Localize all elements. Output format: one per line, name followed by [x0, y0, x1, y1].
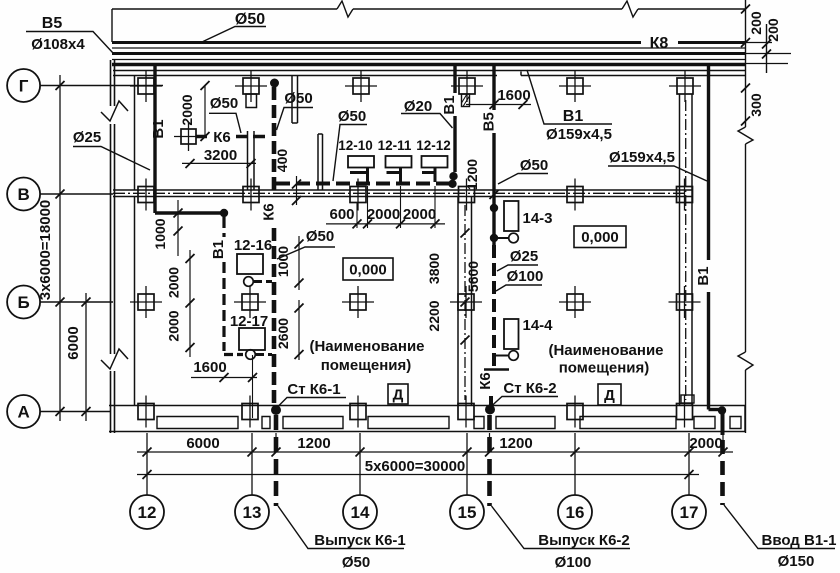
- svg-text:Ø50: Ø50: [306, 228, 334, 245]
- fixture 12-17 rectangle: [239, 328, 265, 350]
- tick 1200a: [490, 190, 499, 199]
- tick x60 y194: [56, 190, 65, 199]
- svg-text:К6: К6: [213, 129, 231, 146]
- fixture 12-10 outlet: [350, 168, 368, 183]
- tick at y9: [741, 5, 750, 14]
- ticks 600/2000/2000: [353, 219, 440, 228]
- svg-text:(Наименование: (Наименование: [309, 338, 424, 355]
- thin line under K8: [112, 47, 746, 49]
- leader Ввод В1-1: [724, 505, 835, 549]
- svg-text:14: 14: [351, 503, 370, 522]
- svg-text:2000: 2000: [689, 435, 722, 452]
- svg-text:К6: К6: [477, 372, 494, 390]
- K6-1 outlet dashed below wall: [274, 415, 279, 506]
- fixture 12-11 outlet: [387, 168, 401, 183]
- extension line y63 right: [746, 63, 788, 65]
- svg-text:В5: В5: [42, 15, 63, 32]
- tick dim1 x489.5: [485, 448, 494, 457]
- svg-text:12: 12: [138, 503, 157, 522]
- svg-text:12-12: 12-12: [416, 138, 451, 153]
- svg-text:2200: 2200: [426, 300, 442, 331]
- right dimension/wall extension line: [745, 0, 747, 433]
- extension line left end of boundary: [111, 9, 113, 42]
- svg-text:16: 16: [566, 503, 585, 522]
- pipe B5 (thick): [112, 52, 746, 55]
- dashed stub 12-17 to K6 stack: [256, 353, 272, 356]
- column В/15: [459, 179, 475, 211]
- tick dim1 x689: [685, 448, 694, 457]
- svg-text:Ø100: Ø100: [507, 268, 544, 285]
- ext line K6-2 stack to dim: [489, 433, 491, 452]
- svg-text:Ø25: Ø25: [510, 248, 538, 265]
- tick dim1 x252: [248, 448, 257, 457]
- svg-text:Ø159x4,5: Ø159x4,5: [609, 149, 675, 166]
- left wall outer line: [110, 60, 112, 433]
- leader St K6-1: [278, 398, 347, 408]
- svg-text:Ø50: Ø50: [235, 11, 265, 28]
- tick x60 y411.5: [56, 407, 65, 416]
- tap circle 12-16: [244, 277, 254, 287]
- tick at K8: [741, 38, 750, 47]
- break symbol left wall lower: [101, 349, 128, 369]
- dim line x190: [189, 250, 191, 357]
- leader for B5: [26, 32, 113, 54]
- axis 15 wall centerline dash-dot: [464, 205, 466, 400]
- tick x60 y85.5: [56, 81, 65, 90]
- svg-text:Д: Д: [393, 387, 404, 404]
- leader O25 center: [497, 265, 538, 271]
- ticks x299 upper: [295, 240, 304, 288]
- svg-text:К8: К8: [650, 35, 669, 52]
- riser B1 center (thick): [453, 64, 456, 173]
- column В/14: [350, 179, 366, 211]
- interior wall on axis 15: [458, 197, 472, 406]
- leader Выпуск К6-1: [278, 506, 404, 549]
- svg-text:14-4: 14-4: [522, 317, 553, 334]
- extension line axis 17: [688, 433, 690, 495]
- axis circle 16: [558, 495, 592, 529]
- column Б/17: [669, 286, 701, 318]
- tap stub 14-3: [494, 237, 509, 239]
- axis line Б: [40, 301, 113, 303]
- svg-text:Б: Б: [17, 293, 29, 312]
- dim line 3200: [182, 162, 256, 164]
- dim line x299 upper: [298, 236, 300, 290]
- leader St K6-2: [492, 397, 559, 407]
- svg-text:1200: 1200: [499, 435, 532, 452]
- junction dot K6 main end: [448, 180, 456, 188]
- break symbol right line lower: [738, 352, 753, 370]
- svg-text:Ø50: Ø50: [284, 90, 312, 107]
- tick dim1 x360: [356, 448, 365, 457]
- column Б/14: [342, 286, 374, 318]
- tick x60 y302: [56, 298, 65, 307]
- ticks x299 lower: [295, 304, 304, 360]
- dim line 1600: [191, 377, 257, 379]
- fixture 12-16 rectangle: [237, 254, 263, 274]
- pipe K8 (thick, top): [112, 41, 746, 44]
- svg-text:15: 15: [458, 503, 477, 522]
- K6 stack-1 top junction dot: [270, 79, 279, 88]
- fixture 12-12 outlet: [422, 168, 435, 183]
- svg-text:Г: Г: [19, 77, 29, 96]
- svg-text:2600: 2600: [275, 318, 291, 349]
- tick 1000b: [174, 227, 183, 236]
- svg-text:12-16: 12-16: [234, 237, 272, 254]
- column В/17: [677, 179, 693, 211]
- svg-text:1200: 1200: [297, 435, 330, 452]
- leader O50 B5: [498, 174, 548, 185]
- svg-text:А: А: [17, 403, 29, 422]
- left dim line 1 (18000): [59, 75, 61, 421]
- svg-text:Ø50: Ø50: [338, 108, 366, 125]
- svg-text:помещения): помещения): [559, 360, 650, 377]
- tick 766 at 54: [762, 50, 771, 59]
- site boundary line top: [112, 8, 746, 10]
- column А/12: [138, 396, 154, 428]
- A bottom wall bottom face: [109, 431, 745, 433]
- column А/17: [677, 396, 693, 428]
- axis circle 13: [235, 495, 269, 529]
- top wall inner face segments with door gap: [113, 72, 745, 76]
- right wall end cap bottom: [744, 406, 746, 432]
- column Б/16: [559, 286, 591, 318]
- B1 distribution pipe dash-dot on B wall: [113, 192, 688, 194]
- junction dot B1 elbow: [220, 209, 228, 217]
- riser B1 right (thick): [707, 64, 710, 410]
- left dim line 2 (6000): [85, 293, 87, 421]
- leader O50 stack-1: [277, 247, 335, 259]
- partition on axis 13 from column to B wall: [246, 94, 257, 108]
- svg-text:помещения): помещения): [321, 357, 412, 374]
- svg-text:Ø108x4: Ø108x4: [31, 36, 85, 53]
- svg-text:0,000: 0,000: [349, 262, 387, 279]
- svg-text:3800: 3800: [426, 253, 442, 284]
- leader O159x4,5 second: [608, 166, 707, 181]
- K6-2 outlet dashed below wall: [487, 415, 492, 506]
- svg-text:6000: 6000: [65, 326, 82, 359]
- svg-text:6000: 6000: [186, 435, 219, 452]
- leader for O50 top: [203, 27, 266, 42]
- axis line В: [40, 193, 113, 195]
- K6 stack-2 dashed: [491, 245, 494, 405]
- B1 dashed stub to 12-17 tap: [224, 353, 243, 356]
- axis circle 12: [130, 495, 164, 529]
- leader O50 room12: [209, 113, 241, 133]
- column А/15: [458, 396, 474, 428]
- leader Выпуск К6-2: [492, 506, 631, 549]
- fixture 12-11 rect: [386, 156, 412, 168]
- B axis wall face 2: [113, 196, 692, 198]
- B1-1 entry solid piece: [721, 411, 725, 435]
- B axis wall face 1: [113, 189, 692, 191]
- svg-text:0,000: 0,000: [581, 229, 619, 246]
- riser B1 left (thick): [153, 64, 156, 214]
- door mark Д left: [388, 384, 408, 404]
- axis line А: [40, 411, 110, 413]
- svg-text:В1: В1: [210, 240, 227, 259]
- svg-text:Ø150: Ø150: [778, 553, 815, 570]
- K6 stack-1 dashed vertical: [272, 87, 277, 405]
- ticks x190: [186, 254, 195, 352]
- svg-text:Ø50: Ø50: [342, 554, 370, 571]
- column В/13: [243, 179, 259, 211]
- pilaster above column А/17: [681, 395, 694, 403]
- axis line Г: [40, 85, 163, 87]
- svg-text:Д: Д: [604, 387, 615, 404]
- junction dot B1 drop: [449, 172, 457, 180]
- svg-text:Выпуск К6-1: Выпуск К6-1: [314, 532, 406, 549]
- svg-text:1600: 1600: [193, 359, 226, 376]
- tick dim2 x689: [685, 470, 694, 479]
- tap circle 12-17: [246, 350, 256, 360]
- fixture 14-3 rect: [504, 201, 519, 231]
- svg-text:Ø20: Ø20: [404, 98, 432, 115]
- svg-text:3x6000=18000: 3x6000=18000: [37, 200, 54, 301]
- partition P2 x318-322: [318, 134, 323, 190]
- top wall outer face (thick): [112, 63, 745, 67]
- dim line 600/2000/2000: [326, 223, 445, 225]
- extension line axis 14: [359, 433, 361, 495]
- break symbol on boundary at x=345: [337, 1, 353, 17]
- column А/14: [350, 396, 366, 428]
- svg-text:В1: В1: [441, 95, 458, 114]
- svg-text:Ø159x4,5: Ø159x4,5: [546, 126, 612, 143]
- axis circle Г: [7, 69, 40, 102]
- svg-text:200: 200: [765, 18, 781, 42]
- dim line 1600 right: [466, 104, 531, 106]
- svg-text:Ø50: Ø50: [210, 95, 238, 112]
- svg-text:17: 17: [680, 503, 699, 522]
- tick dim1 x723: [719, 448, 728, 457]
- svg-text:(Наименование: (Наименование: [548, 342, 663, 359]
- svg-text:В: В: [17, 185, 29, 204]
- svg-text:1200: 1200: [464, 159, 480, 190]
- svg-text:12-11: 12-11: [378, 138, 412, 153]
- tick dim1 x467: [463, 448, 472, 457]
- A bottom wall top face: [109, 405, 745, 407]
- leader O50 stack-1 top: [277, 108, 314, 131]
- B1 callout leader top: [527, 70, 612, 124]
- fixture 14-4 rect: [504, 319, 519, 349]
- extension line axis 16: [574, 433, 576, 495]
- extension line near 12-17: [252, 355, 254, 418]
- dim line x205: [204, 86, 206, 137]
- ext line B1-1 to dim: [722, 433, 724, 452]
- break symbol on boundary at x=630: [622, 1, 638, 17]
- partition P1 near x294: [292, 76, 298, 124]
- tick 1000a: [174, 209, 183, 218]
- svg-text:2000: 2000: [179, 94, 195, 125]
- leader O50 K6 main: [333, 125, 367, 182]
- tick x86 y302: [82, 298, 91, 307]
- svg-text:3200: 3200: [204, 147, 237, 164]
- left wall inner face: [134, 76, 136, 406]
- column Б/12: [130, 286, 162, 318]
- ticks 1600: [220, 373, 258, 382]
- svg-text:Ввод В1-1: Ввод В1-1: [761, 532, 836, 549]
- B1 dashed vertical branch: [222, 217, 225, 351]
- junction dot B5 to 14-3: [490, 204, 498, 212]
- leader O20: [401, 114, 453, 129]
- axis circle Б: [7, 286, 40, 319]
- svg-text:14-3: 14-3: [522, 210, 552, 227]
- svg-text:Ø100: Ø100: [555, 554, 592, 571]
- elevation box 0,000 left: [343, 258, 393, 280]
- B1-1 entry dashed: [720, 440, 725, 505]
- drain fixture square (trap): [174, 122, 203, 151]
- leader O100: [496, 285, 542, 291]
- fixture 12-12 rect: [422, 156, 448, 168]
- K6 branch dashed horizontal: [196, 135, 269, 139]
- break symbol left wall upper: [101, 101, 128, 121]
- axis circle В: [7, 178, 40, 211]
- window/sill boxes in bottom wall: [157, 417, 741, 429]
- ticks 1600 right: [490, 100, 528, 109]
- column Г/12: [130, 70, 162, 102]
- ticks 3200: [186, 159, 256, 168]
- tick at y88: [741, 84, 750, 93]
- svg-text:В1: В1: [695, 266, 712, 285]
- ticks on axis15 wall centerline: [461, 229, 470, 345]
- interior wall on axis 17: [680, 94, 693, 406]
- dim line for 1000 elbow: [177, 200, 179, 256]
- tick 766 at 44: [762, 40, 771, 49]
- tick dim1 x575: [571, 448, 580, 457]
- dim line 400: [296, 176, 298, 205]
- bottom dim line 1: [137, 451, 733, 453]
- column Г/13: [235, 70, 267, 102]
- svg-text:Ст К6-2: Ст К6-2: [503, 380, 556, 397]
- svg-text:5600: 5600: [465, 261, 481, 292]
- K6 main dashed horizontal: [276, 182, 450, 186]
- svg-text:2000: 2000: [166, 267, 182, 298]
- svg-text:К6: К6: [261, 203, 278, 221]
- svg-text:В5: В5: [481, 112, 498, 131]
- second dim line x766: [766, 24, 768, 73]
- elevation box 0,000 right: [574, 226, 626, 248]
- svg-text:Ø50: Ø50: [520, 157, 548, 174]
- svg-text:2000: 2000: [166, 310, 182, 341]
- extension line axis 15: [466, 433, 468, 495]
- extension line y53.5 right: [746, 53, 791, 55]
- tick x86 y411.5: [82, 407, 91, 416]
- pilaster below column G15 (hatched): [462, 94, 470, 107]
- svg-text:В1: В1: [563, 108, 584, 125]
- door mark Д right: [598, 384, 621, 405]
- St K6-1 dot: [271, 405, 281, 415]
- tick at y121: [741, 117, 750, 126]
- axis 17 wall centerline dash-dot: [685, 100, 687, 400]
- axis circle 17: [672, 495, 706, 529]
- column В/16: [567, 179, 583, 211]
- cross tick on stack-2: [484, 368, 509, 370]
- axis circle 15: [450, 495, 484, 529]
- tick dim1 x276: [272, 448, 281, 457]
- column А/16: [567, 396, 583, 428]
- B1 elbow horizontal: [155, 211, 224, 214]
- svg-text:600: 600: [329, 206, 354, 223]
- svg-text:2000: 2000: [403, 206, 436, 223]
- leader O25: [73, 147, 150, 171]
- junction dot B1 entry: [718, 406, 726, 414]
- extension lines from outlets: [357, 186, 435, 228]
- ticks 400: [292, 180, 301, 206]
- svg-text:12-10: 12-10: [338, 138, 373, 153]
- column Б/15: [450, 286, 482, 318]
- svg-text:Ст К6-1: Ст К6-1: [287, 381, 340, 398]
- dashed stub 12-16 to K6 stack: [254, 280, 272, 283]
- axis circle 14: [343, 495, 377, 529]
- tap circle 14-4: [509, 351, 519, 361]
- St K6-2 dot: [485, 405, 495, 415]
- svg-text:400: 400: [274, 149, 290, 173]
- tick dim2 x147: [143, 470, 152, 479]
- svg-text:200: 200: [748, 11, 764, 35]
- left wall second line: [114, 60, 116, 433]
- svg-text:Ø25: Ø25: [73, 129, 101, 146]
- tick dim1 x147: [143, 448, 152, 457]
- extension line axis 12: [146, 433, 148, 495]
- extension line y42.5 right: [746, 42, 772, 44]
- column Б/13: [234, 286, 266, 318]
- svg-text:300: 300: [748, 93, 764, 117]
- column Г/14: [345, 70, 377, 102]
- svg-text:Выпуск К6-2: Выпуск К6-2: [538, 532, 630, 549]
- bottom dim line 2: [137, 474, 699, 476]
- tap stub 14-4: [494, 355, 509, 357]
- top wall line 2: [113, 70, 745, 72]
- svg-text:В1: В1: [150, 119, 167, 138]
- B1 right elbow: [709, 408, 723, 411]
- ticks x205: [201, 81, 210, 141]
- svg-text:1000: 1000: [152, 218, 168, 249]
- thin line under B5: [112, 59, 746, 61]
- tap circle 14-3: [509, 233, 519, 243]
- junction dot B5 tap: [490, 234, 498, 242]
- column Г/16: [559, 70, 591, 102]
- axis circle А: [7, 395, 40, 428]
- svg-text:5x6000=30000: 5x6000=30000: [365, 458, 466, 475]
- column А/13: [242, 396, 258, 428]
- riser B5 (thick): [492, 64, 495, 246]
- dim line x299 lower: [298, 300, 300, 360]
- extension line axis 13: [251, 433, 253, 495]
- fixture 12-10 rect: [348, 156, 374, 168]
- ext line K6-1 stack to dim: [275, 433, 277, 452]
- column Г/15: [451, 70, 483, 102]
- svg-text:1000: 1000: [275, 246, 291, 277]
- column Г/17: [669, 70, 701, 102]
- column В/12: [138, 179, 154, 211]
- break symbol right line upper: [738, 127, 753, 144]
- svg-text:13: 13: [243, 503, 262, 522]
